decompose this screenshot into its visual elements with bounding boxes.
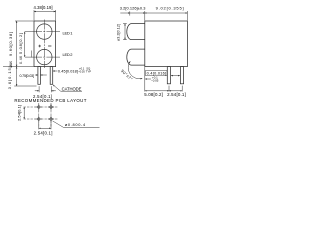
pcb layout dashed centerlines row 1 (24, 106, 58, 108)
lead thickness arrows (171, 75, 180, 77)
front lead 2 (50, 67, 53, 85)
pcb layout hole C (36, 116, 42, 122)
svg-text:LED 1: LED 1 (63, 30, 74, 35)
dimension 4.38 line (34, 11, 56, 13)
cathode leader (53, 85, 82, 91)
svg-text:TYP: TYP (86, 70, 91, 74)
side view dome 1 (127, 24, 145, 40)
pcb vertical 2.54 dim line (23, 107, 25, 119)
side bottom dim ext lines (144, 67, 146, 91)
dimension 9.60 extension top (15, 20, 34, 22)
front lead 1 (38, 67, 41, 85)
hole diameter leader (53, 121, 100, 127)
lead length dim line (16, 67, 18, 86)
lens diameter dim line (124, 24, 126, 40)
svg-text:⌀3.2[0.12]: ⌀3.2[0.12] (117, 24, 121, 41)
pcb bottom 2.54 dim ext lines (38, 122, 40, 129)
pcb layout dashed centerlines row 2 (24, 118, 58, 120)
pcb layout dashed column line 1 (38, 103, 40, 128)
lens diameter dim ext lines (123, 23, 127, 25)
pcb layout dashed column line 2 (50, 103, 52, 128)
dimension 4.38 extension lines (33, 10, 35, 21)
svg-text:5.08[0.2]: 5.08[0.2] (18, 33, 23, 54)
svg-text:−0.05: −0.05 (78, 70, 85, 74)
dimension 3.2 line (130, 12, 145, 14)
svg-text:2.54[0.1]: 2.54[0.1] (34, 130, 53, 135)
side view body outline (145, 21, 188, 67)
side lead B (180, 67, 183, 84)
svg-text:CATHODE: CATHODE (62, 86, 82, 91)
pcb layout hole B (48, 104, 54, 110)
svg-text:−0.05: −0.05 (151, 79, 159, 83)
svg-text:LED 2: LED 2 (63, 52, 74, 57)
side view dome 2 (127, 49, 145, 65)
pcb layout hole A (36, 104, 42, 110)
polarity minus mark (48, 45, 51, 47)
svg-text:9.02[0.355]: 9.02[0.355] (156, 6, 184, 11)
LED 1 centerline horizontal (25, 31, 60, 33)
svg-text:3.8[0.15]: 3.8[0.15] (7, 66, 12, 89)
dimension 9.02 line (145, 12, 188, 14)
front view body outline (34, 21, 56, 67)
svg-text:5.08[0.2]: 5.08[0.2] (144, 92, 163, 97)
LED centerline vertical (43, 20, 45, 69)
dimension 5.08 side line (145, 90, 169, 92)
side lead A (167, 67, 170, 84)
svg-text:9.60[0.38]: 9.60[0.38] (8, 32, 13, 56)
svg-text:4.38[0.19]: 4.38[0.19] (34, 5, 53, 10)
lead length extension bottom (14, 85, 36, 87)
dimension 2.54 front ext lines (38, 86, 40, 92)
svg-text:RECOMMENDED PCB LAYOUT: RECOMMENDED PCB LAYOUT (14, 98, 86, 103)
dimension 3.2 outside arrow (120, 12, 130, 14)
lead size leader (53, 70, 58, 72)
svg-text:0.46: 0.46 (19, 56, 23, 64)
dimension 0.75 arrows at lead 1 (35, 74, 38, 76)
svg-text:2.54[0.1]: 2.54[0.1] (16, 105, 21, 121)
svg-text:⌀0.800-4: ⌀0.800-4 (65, 122, 86, 127)
LED 2 centerline horizontal (25, 56, 60, 58)
dimension 9.02 ext lines (144, 11, 146, 21)
dimension 2.54 front leads outside arrows (35, 90, 39, 92)
pcb bottom 2.54 dim line (39, 127, 51, 129)
svg-text:90°±7°: 90°±7° (120, 68, 134, 81)
dimension 5.08 line (24, 32, 26, 57)
angle 90 deg arc (128, 61, 142, 78)
dimension 2.54 side line (169, 90, 182, 92)
pcb layout hole D (48, 116, 54, 122)
lead thickness box (146, 71, 168, 76)
polarity plus mark (38, 45, 41, 48)
svg-text:0.75[0.03]: 0.75[0.03] (20, 74, 35, 78)
dimension 3.2 ext tick (129, 11, 131, 15)
dimension 9.60 line (16, 21, 18, 67)
dimension 9.60 extension bottom (3, 66, 34, 68)
LED 2 lens circle (37, 49, 52, 64)
small dim line near body edge (31, 51, 33, 58)
LED 1 lens circle (37, 24, 52, 39)
svg-text:0.45[0.018]: 0.45[0.018] (58, 69, 78, 73)
svg-text:3.2[0.126]±0.3: 3.2[0.126]±0.3 (120, 5, 146, 10)
svg-text:2.54[0.1]: 2.54[0.1] (167, 92, 186, 97)
face leader arrow (145, 78, 151, 80)
